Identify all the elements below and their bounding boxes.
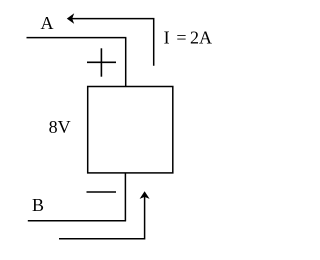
svg-text:A: A <box>41 13 54 33</box>
node A <box>41 13 54 33</box>
wire (vertical into box top) <box>125 38 127 87</box>
label 8V <box>49 117 71 137</box>
minus polarity mark <box>87 191 117 193</box>
current arrow I (top, pointing left) <box>67 13 154 66</box>
current arrow (bottom, pointing up) <box>59 191 150 239</box>
wire (vertical from box bottom) <box>124 173 126 221</box>
circuit element box (8V source) <box>88 87 173 173</box>
wire (top horizontal from A) <box>27 37 127 39</box>
plus polarity mark <box>87 48 116 76</box>
svg-text:B: B <box>32 195 44 215</box>
wire (bottom horizontal to B) <box>28 220 126 222</box>
svg-text:8V: 8V <box>49 117 71 137</box>
node B <box>32 195 44 215</box>
label I = 2A <box>164 28 212 48</box>
